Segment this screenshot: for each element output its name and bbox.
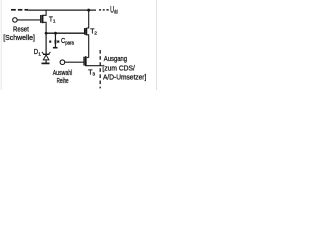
ground (D1) xyxy=(42,62,50,64)
right page edge xyxy=(156,0,158,90)
wire: output dashed column xyxy=(99,50,101,88)
svg-text:2: 2 xyxy=(94,31,97,37)
photodiode D1 xyxy=(42,52,51,63)
svg-text:[Schwelle]: [Schwelle] xyxy=(3,33,35,42)
node: photodiode node wire xyxy=(46,32,84,34)
wire: reset gate lead xyxy=(17,19,40,21)
wire: rail junction down to T2 drain xyxy=(87,10,89,28)
left page edge xyxy=(0,0,2,90)
ground (Cpara) xyxy=(53,47,58,49)
transistor T3 xyxy=(84,56,102,66)
wire: Udd rail dashed continuation right xyxy=(99,9,109,11)
svg-text:1: 1 xyxy=(38,51,41,57)
svg-text:A/D-Umsetzer]: A/D-Umsetzer] xyxy=(103,72,146,81)
svg-text:Reihe: Reihe xyxy=(57,76,69,85)
svg-text:1: 1 xyxy=(53,19,56,25)
node: junction dot on rail above T2 xyxy=(87,9,90,12)
svg-text:3: 3 xyxy=(92,72,95,78)
transistor T2 xyxy=(85,28,89,58)
svg-text:Ausgang: Ausgang xyxy=(104,54,127,63)
terminal: Auswahl Reihe circle xyxy=(60,60,65,65)
capacitor Cpara xyxy=(49,33,59,47)
wire: row select gate lead xyxy=(65,61,84,63)
svg-text:para: para xyxy=(65,41,74,47)
wire: Udd top rail solid xyxy=(28,9,96,11)
terminal: Reset input circle xyxy=(13,18,18,23)
transistor T1 xyxy=(41,10,46,33)
node: junction dot at Cpara tap xyxy=(54,32,57,35)
svg-text:dd: dd xyxy=(114,10,118,16)
wire: Udd rail dashed continuation left xyxy=(11,9,28,11)
wire: node to photodiode xyxy=(45,33,47,54)
node: junction dot at T1 source xyxy=(45,32,48,35)
